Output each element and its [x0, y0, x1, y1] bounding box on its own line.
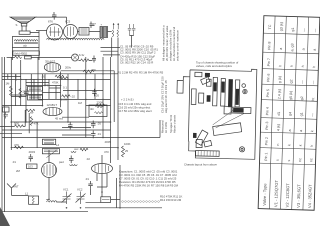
svg-text:.0005: .0005 — [104, 140, 111, 144]
wire — [20, 60, 22, 106]
wire — [12, 194, 29, 196]
wire — [2, 77, 61, 97]
valve V3 (35L6GT) — [44, 59, 60, 72]
voice coil box — [89, 105, 107, 117]
mains switch block — [3, 107, 10, 119]
small rect b — [196, 139, 202, 147]
svg-text:47K: 47K — [91, 68, 96, 72]
wire — [12, 31, 39, 60]
capacitor C7 — [88, 181, 93, 189]
wire — [31, 57, 71, 59]
oscillator coil L2 — [112, 30, 118, 37]
svg-text:.05: .05 — [41, 75, 45, 79]
resistor R4 — [83, 70, 94, 73]
svg-text:k: k — [287, 144, 291, 146]
capacitor C2 — [68, 122, 73, 130]
wire — [41, 74, 43, 106]
svg-text:12C8GT: 12C8GT — [47, 103, 58, 107]
wire — [36, 30, 47, 32]
wire — [27, 199, 29, 201]
wire — [2, 129, 111, 131]
junction dots — [11, 73, 121, 209]
svg-text:ANT: ANT — [13, 185, 19, 189]
svg-text:6.3v: 6.3v — [79, 53, 85, 57]
svg-text:s: s — [276, 159, 280, 161]
long bottom-right rect — [232, 107, 251, 113]
wire — [11, 147, 118, 149]
svg-text:V1 - 12SQ7GT: V1 - 12SQ7GT — [273, 179, 279, 207]
wire — [110, 57, 112, 163]
grommet circle top — [243, 89, 247, 93]
capacitor C5 — [29, 154, 34, 162]
wire — [77, 79, 79, 99]
resistor R15 — [81, 59, 90, 62]
svg-text:V2 - 12C8GT: V2 - 12C8GT — [285, 183, 291, 208]
svg-text:field 450Ω: field 450Ω — [15, 51, 28, 55]
wire to pilot lamp — [7, 57, 15, 59]
trimmer arrow — [46, 150, 57, 158]
svg-text:h: h — [312, 66, 316, 68]
osc padder box — [42, 149, 59, 154]
small rect c — [204, 140, 212, 147]
svg-text:a: a — [313, 49, 317, 51]
output transformer T1 — [12, 37, 39, 48]
svg-text:g4: g4 — [288, 112, 292, 116]
svg-text:35L6GT: 35L6GT — [45, 59, 55, 63]
svg-text:a: a — [299, 130, 303, 132]
wire — [62, 134, 91, 136]
svg-text:Pin 3: Pin 3 — [265, 122, 269, 130]
svg-text:k: k — [310, 145, 314, 147]
switch box — [25, 56, 32, 59]
tuning gang VC1 — [62, 192, 72, 205]
gang ticks — [198, 151, 216, 157]
value labels cluster C — [118, 98, 152, 114]
svg-text:0.1: 0.1 — [63, 86, 67, 90]
svg-text:.05: .05 — [95, 94, 99, 98]
wire — [60, 72, 62, 108]
svg-text:VC1: VC1 — [63, 188, 69, 192]
svg-text:h: h — [301, 65, 305, 67]
svg-text:2.4 (k): 2.4 (k) — [277, 89, 281, 99]
svg-text:L1: L1 — [25, 192, 29, 196]
wire — [26, 85, 61, 87]
electrolytic can 1 — [213, 77, 218, 106]
capacitor C8 — [52, 12, 57, 20]
resistor R8 — [15, 125, 24, 128]
page corner mark — [0, 207, 10, 226]
value labels cluster D — [119, 170, 182, 204]
value labels cluster A — [120, 45, 158, 65]
svg-text:volume control maximum: volume control maximum — [176, 29, 180, 61]
resistor R14 — [62, 95, 71, 98]
svg-text:d1: d1 — [277, 112, 281, 116]
svg-text:g (k): g (k) — [278, 76, 282, 83]
svg-text:.0003: .0003 — [28, 150, 35, 154]
field coil box — [13, 51, 40, 56]
svg-text:—: — — [300, 80, 304, 84]
wire — [108, 31, 112, 33]
svg-text:.01: .01 — [85, 177, 89, 181]
valve can 4 — [235, 80, 240, 107]
valve V4 (rectifier) — [92, 164, 113, 174]
svg-text:.01: .01 — [97, 132, 101, 136]
wire — [62, 127, 91, 129]
svg-text:1M: 1M — [78, 101, 83, 105]
svg-text:a: a — [288, 129, 292, 131]
table column V1 — [273, 22, 283, 207]
resistor R6 — [96, 104, 105, 107]
valve can 3 (dark) — [228, 79, 233, 107]
tilted rect (dial plate) — [213, 123, 242, 136]
svg-text:IFT: IFT — [44, 84, 48, 88]
svg-text:—: — — [313, 28, 317, 32]
svg-text:—: — — [302, 28, 306, 32]
wire — [86, 200, 121, 203]
resistor R10 — [30, 117, 33, 126]
valve rectifier envelope (top circle) — [64, 25, 78, 39]
svg-text:osc: osc — [74, 147, 79, 151]
coil L6 — [71, 151, 76, 152]
svg-text:VC2: VC2 — [77, 188, 83, 192]
small rect mid — [206, 79, 211, 86]
osc coil box — [42, 139, 55, 144]
svg-text:47K: 47K — [14, 143, 19, 147]
wire — [67, 74, 69, 122]
output transformer (top view) — [224, 106, 231, 114]
wire — [2, 105, 43, 107]
wire — [63, 90, 103, 92]
svg-text:1M: 1M — [6, 82, 11, 86]
rotated notes column 2 — [161, 76, 177, 133]
wire — [22, 26, 26, 31]
svg-text:tol ±10%: tol ±10% — [164, 122, 168, 133]
wire — [30, 74, 32, 99]
wire — [91, 173, 108, 195]
svg-text:valves, coils and electrolytic: valves, coils and electrolytics — [196, 64, 233, 68]
svg-text:4 (k): 4 (k) — [276, 124, 280, 131]
rotated notes column — [162, 25, 180, 61]
svg-text:a: a — [279, 48, 283, 50]
wire — [11, 94, 42, 96]
table column V2 — [285, 27, 295, 207]
electrolytic block — [100, 23, 108, 38]
small dark rect d — [193, 133, 197, 138]
svg-text:g1: g1 — [291, 27, 295, 31]
dial circle small — [242, 84, 246, 88]
svg-text:g1: g1 — [300, 112, 304, 116]
svg-text:k: k — [299, 144, 303, 146]
svg-text:ht: ht — [311, 98, 315, 101]
wire — [2, 208, 162, 212]
capacitor C3 — [91, 121, 96, 129]
wire — [101, 155, 103, 197]
svg-text:A.V.C: A.V.C — [14, 73, 18, 80]
svg-text:Pin 4: Pin 4 — [265, 107, 269, 115]
small dark component — [207, 95, 211, 102]
svg-text:o/p: o/p — [23, 43, 27, 47]
svg-text:100K: 100K — [124, 142, 131, 146]
svg-text:V3 - 35L6GT: V3 - 35L6GT — [296, 184, 302, 208]
svg-text:Pin 1: Pin 1 — [264, 153, 268, 161]
table outer border — [258, 16, 320, 211]
resistor R9 — [15, 146, 24, 149]
svg-text:g5 (k): g5 (k) — [289, 91, 293, 100]
svg-text:h: h — [290, 65, 294, 67]
IFT2 winding box upper — [28, 87, 43, 92]
more value labels — [12, 20, 111, 174]
svg-text:nc: nc — [309, 158, 313, 162]
wire — [46, 150, 66, 202]
svg-text:n: n — [276, 144, 280, 146]
svg-text:4Ω: 4Ω — [90, 107, 94, 111]
IF transformer T2 — [79, 28, 89, 36]
component value labels — [6, 68, 131, 196]
mains lead wires — [2, 57, 5, 212]
svg-text:Pin 7: Pin 7 — [267, 58, 271, 66]
svg-text:470: 470 — [104, 150, 109, 154]
wire — [85, 57, 87, 138]
svg-text:Pin 6: Pin 6 — [266, 74, 270, 82]
capacitor C1 — [24, 89, 29, 97]
wire — [78, 31, 101, 33]
capacitor C9 — [27, 157, 29, 159]
valve V1 (12SQ7 converter) — [42, 163, 57, 178]
tilted rect top — [201, 77, 210, 85]
dial cord line — [213, 110, 244, 129]
svg-text:pad: pad — [59, 160, 64, 164]
table verticals — [269, 16, 308, 210]
table header labels — [262, 24, 272, 206]
wire — [11, 121, 110, 123]
wire — [112, 38, 118, 58]
svg-text:50K: 50K — [14, 122, 19, 126]
chassis outline — [188, 68, 257, 159]
grommet circle — [239, 147, 244, 152]
svg-text:C17 50 mfd 150v wkg elect: C17 50 mfd 150v wkg elect — [118, 109, 152, 113]
wire — [101, 48, 121, 55]
svg-text:h: h — [278, 65, 282, 67]
svg-text:200v: 200v — [65, 66, 72, 70]
svg-text:C6 .002 R12 1K C14 .05 R: C6 .002 R12 1K C14 .05 R — [120, 61, 153, 65]
small box (padder) — [101, 197, 111, 203]
valve can 2 — [221, 79, 226, 107]
coil L5 — [70, 165, 78, 166]
resistor R11 — [26, 109, 35, 112]
side bracket — [177, 77, 190, 94]
svg-text:R4 470K R5 220K R6 1K R7 15: R4 470K R5 220K R6 1K R7 150 R8 1M R9 2M — [119, 184, 179, 188]
capacitor C3b — [91, 131, 96, 139]
small dark rect top — [205, 73, 210, 77]
speaker LS1 — [10, 17, 35, 27]
aerial coil box — [29, 196, 39, 204]
capacitor stack — [128, 24, 136, 36]
resistor R12 — [15, 56, 22, 59]
valve pin connection table — [258, 16, 320, 211]
chassis caption above — [196, 61, 239, 69]
wire — [25, 110, 37, 148]
resistor R5 — [59, 77, 68, 80]
wire — [25, 79, 27, 122]
wire — [48, 79, 50, 99]
svg-text:6C5: 6C5 — [65, 20, 71, 24]
small rect top a — [195, 72, 202, 77]
wire — [86, 105, 111, 107]
svg-text:—: — — [312, 80, 316, 84]
wire — [62, 116, 89, 118]
svg-text:+ 2 2 A.E.i: + 2 2 A.E.i — [121, 98, 134, 102]
svg-text:220K: 220K — [97, 101, 104, 105]
table column V4 — [307, 28, 317, 208]
tuning gang (top view) — [196, 150, 220, 156]
wire — [10, 57, 12, 150]
wave-trap coil — [47, 201, 57, 202]
resistor R1 — [55, 75, 64, 78]
tuning gang VC2 — [76, 192, 86, 205]
capacitor C0 — [92, 89, 97, 97]
wire — [94, 74, 96, 100]
svg-text:L4: L4 — [56, 143, 60, 147]
wire — [2, 73, 118, 75]
table column V3 — [296, 28, 306, 208]
wire — [38, 98, 111, 100]
svg-text:.05: .05 — [97, 122, 101, 126]
wire — [8, 74, 56, 99]
heater loop wire — [47, 38, 105, 39]
svg-text:.02: .02 — [86, 157, 90, 161]
svg-text:45 ma: 45 ma — [55, 117, 63, 121]
arrowed trimmer leads — [113, 23, 119, 29]
svg-text:g2: g2 — [289, 79, 293, 83]
wire — [0, 132, 22, 134]
resistor R3 — [10, 86, 13, 96]
IF can (outline) — [191, 89, 196, 105]
svg-text:Pin 5: Pin 5 — [266, 89, 270, 97]
svg-text:.01: .01 — [12, 160, 16, 164]
pilot lamp — [72, 54, 79, 61]
wire — [0, 125, 25, 127]
svg-text:V4 - 35Z4GT: V4 - 35Z4GT — [307, 184, 313, 208]
svg-text:Chassis layout from above: Chassis layout from above — [184, 163, 217, 167]
wire — [79, 60, 93, 62]
value labels cluster B — [118, 71, 164, 75]
svg-text:a, g3: a, g3 — [290, 43, 294, 51]
svg-text:nc: nc — [298, 158, 302, 162]
svg-text:47K: 47K — [34, 122, 39, 126]
electrolytic capacitor C12 — [90, 22, 97, 29]
valve V3 envelope (top circle) — [47, 24, 63, 40]
svg-text:—: — — [311, 113, 315, 117]
capacitor stack C6 — [69, 156, 74, 164]
svg-text:2M: 2M — [16, 169, 21, 173]
wire — [14, 74, 16, 106]
wire — [61, 71, 114, 122]
chassis caption below — [184, 163, 217, 167]
svg-text:Pin 2: Pin 2 — [265, 137, 269, 145]
svg-text:103: 103 — [28, 165, 33, 169]
svg-text:g2: g2 — [300, 96, 304, 100]
svg-text:Above chassis: Above chassis — [173, 114, 177, 133]
small box 103 — [27, 164, 38, 169]
wire — [2, 137, 160, 139]
wire — [117, 165, 121, 208]
wire — [102, 57, 104, 138]
svg-text:6T6: 6T6 — [48, 20, 53, 24]
svg-text:25: 25 — [125, 149, 129, 153]
wire — [2, 78, 111, 80]
wire — [37, 57, 39, 99]
chassis layout (top view) — [176, 68, 257, 160]
hum coil box — [19, 31, 30, 34]
svg-text:25: 25 — [23, 90, 27, 94]
svg-text:S: S — [16, 23, 18, 27]
valve V2 (12C8GT) — [43, 103, 62, 116]
svg-text:wkg elect C18 .01 C19 .05: wkg elect C18 .01 C19 .05 — [164, 80, 168, 113]
tilted rect 2 — [195, 130, 208, 145]
svg-text:R12 150 R13 2M: R12 150 R13 2M — [160, 198, 182, 202]
svg-text:a: a — [301, 48, 305, 50]
wire — [117, 57, 119, 160]
label 45ma — [55, 117, 63, 121]
antenna — [7, 184, 19, 196]
IF can 2 (outline) — [199, 93, 204, 103]
svg-text:g3 (k): g3 (k) — [279, 22, 283, 31]
svg-text:R1 2.2M R2 47K R3 1M R4 470K R: R1 2.2M R2 47K R3 1M R4 470K R5 — [118, 71, 164, 75]
svg-text:Valve - Type: Valve - Type — [262, 183, 268, 206]
svg-text:.02: .02 — [71, 95, 75, 99]
wire — [159, 120, 161, 138]
svg-text:TC: TC — [268, 24, 272, 29]
svg-text:s: s — [287, 159, 291, 161]
svg-text:k: k — [310, 130, 314, 132]
capacitor C10 — [92, 56, 96, 63]
resistor R7 — [122, 146, 125, 157]
svg-text:o o o o o o o o o o o o o: o o o o o o o o o o o o o — [122, 200, 160, 204]
svg-text:Pin 8: Pin 8 — [267, 42, 271, 50]
svg-text:470K: 470K — [52, 81, 59, 85]
resistor R2 — [19, 89, 22, 99]
svg-text:2.2M: 2.2M — [61, 98, 68, 102]
wire — [36, 17, 67, 24]
wire — [130, 36, 134, 48]
IFT2 winding box lower — [28, 95, 43, 101]
resistor R13 — [80, 148, 88, 151]
table horizontals — [260, 33, 320, 165]
